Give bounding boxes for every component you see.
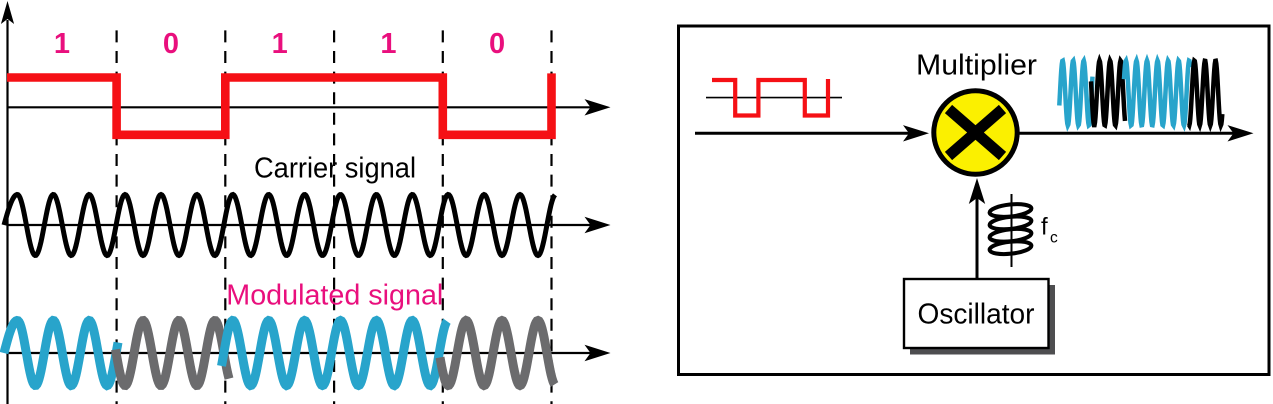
dashed bit-boundary line 4 bbox=[442, 30, 444, 404]
svg-text:f: f bbox=[1041, 214, 1048, 241]
svg-text:c: c bbox=[1050, 230, 1058, 247]
carrier sine wave bbox=[4, 195, 555, 256]
dashed bit-boundary line 5 bbox=[550, 30, 552, 404]
block diagram frame bbox=[679, 26, 1270, 375]
svg-text:1: 1 bbox=[272, 28, 288, 60]
output burst: cyan bits 1,1 bbox=[1124, 61, 1190, 126]
output burst: black bit 0 (end) bbox=[1189, 61, 1223, 126]
wire: multiplier output bbox=[1017, 125, 1254, 141]
svg-text:0: 0 bbox=[489, 28, 505, 60]
output burst: black bit 0 bbox=[1091, 61, 1125, 126]
modulated signal: cyan segment bits 1,1 (cells 3-4) bbox=[222, 321, 448, 386]
svg-text:1: 1 bbox=[380, 28, 396, 60]
svg-text:Oscillator: Oscillator bbox=[918, 299, 1035, 331]
vertical axis (left diagram) bbox=[1, 1, 14, 404]
horizontal axis of data signal bbox=[8, 99, 611, 115]
svg-text:Carrier signal: Carrier signal bbox=[254, 153, 416, 185]
svg-text:Multiplier: Multiplier bbox=[916, 50, 1037, 82]
multiplier U1 (yellow circle) bbox=[934, 91, 1017, 174]
horizontal axis of modulated signal bbox=[8, 345, 611, 361]
coil symbol (oscillator frequency) bbox=[989, 194, 1032, 267]
modulated signal: gray inverted segment bit 0 (cell 2) bbox=[116, 321, 230, 386]
wire: oscillator to multiplier bbox=[969, 178, 985, 279]
svg-text:1: 1 bbox=[54, 28, 70, 60]
dashed bit-boundary line 2 bbox=[224, 30, 226, 404]
input binary square wave (red, miniature) bbox=[712, 79, 828, 116]
binary data square wave (red) bbox=[7, 73, 552, 134]
dashed bit-boundary line 3 bbox=[333, 30, 335, 404]
output burst: cyan bit 1 bbox=[1059, 61, 1092, 126]
input signal baseline bbox=[706, 97, 842, 99]
svg-text:Modulated signal: Modulated signal bbox=[226, 280, 443, 312]
oscillator box shadow bbox=[910, 285, 1055, 355]
modulated signal: gray inverted segment bit 0 (cell 5) bbox=[440, 321, 555, 386]
multiply X symbol bbox=[949, 109, 1003, 156]
modulated signal: cyan segment bit 1 (cell 1) bbox=[4, 321, 118, 386]
oscillator box bbox=[904, 279, 1049, 348]
dashed bit-boundary line 1 bbox=[115, 30, 117, 404]
horizontal axis of carrier signal bbox=[8, 217, 611, 233]
label: f_c bbox=[1041, 214, 1058, 247]
svg-text:0: 0 bbox=[163, 28, 179, 60]
wire: input into multiplier bbox=[695, 125, 929, 141]
